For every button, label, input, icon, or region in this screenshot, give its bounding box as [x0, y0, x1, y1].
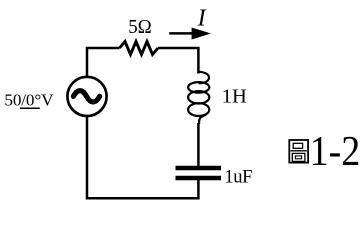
capacitor C bottom plate [176, 176, 222, 180]
svg-text:1H: 1H [222, 86, 247, 108]
svg-text:50/0°V: 50/0°V [4, 91, 54, 110]
wire top-right corner (resistor to inductor top) [158, 48, 198, 74]
inductor L1 loop 2 [188, 91, 209, 103]
wire bottom (capacitor to bottom rail to left vertical lower) [87, 116, 198, 199]
caption character 圖 outer box [289, 140, 308, 163]
inductor L1 bottom exit curve [199, 115, 206, 124]
inductor L1 loop 3 [188, 103, 209, 116]
svg-text:5Ω: 5Ω [128, 15, 152, 38]
caption character 圖 bottom outer box [292, 153, 305, 161]
voltage source VS sine wave [73, 91, 99, 102]
svg-text:I: I [197, 5, 207, 31]
svg-text:1-2: 1-2 [310, 127, 360, 174]
caption character 圖 top small box [293, 143, 302, 148]
voltage source VS circle [67, 77, 106, 116]
inductor L1 loop 1 [188, 82, 209, 93]
caption character 圖 bottom inner box [295, 156, 301, 159]
resistor R (5 ohm) zigzag [120, 42, 159, 55]
current arrow I shaft [169, 32, 194, 35]
svg-text:1uF: 1uF [224, 167, 252, 188]
wire inductor to capacitor [197, 123, 200, 166]
current arrow I head [192, 28, 211, 40]
inductor L1 top hook [198, 72, 209, 83]
capacitor C top plate [176, 166, 222, 170]
caption character 圖 middle horizontal stroke [291, 150, 307, 152]
angle notation underline [20, 107, 40, 109]
wire top-left (left vertical upper + top horizontal to resistor) [87, 48, 120, 77]
